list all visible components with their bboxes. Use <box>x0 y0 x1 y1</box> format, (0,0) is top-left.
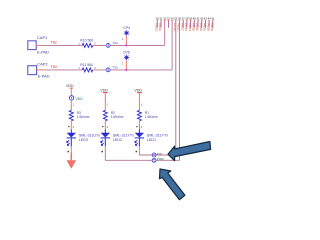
svg-text:PA19: PA19 <box>192 23 196 31</box>
capacitor CP6 <box>122 50 130 65</box>
connector pin 10 <box>189 16 193 27</box>
wire TS3 to port <box>97 69 173 71</box>
svg-text:E-PAD: E-PAD <box>37 50 49 55</box>
connector pin 5 <box>170 16 174 21</box>
svg-text:PB16: PB16 <box>210 23 214 31</box>
capacitor CP4 <box>122 26 130 41</box>
wire TS2 net: CAP1 pin <box>36 44 41 46</box>
svg-text:P00: P00 <box>157 152 162 156</box>
svg-text:CAP1: CAP1 <box>37 35 48 40</box>
LED D LED3 <box>67 133 101 146</box>
connector pin 7 <box>178 16 182 21</box>
connector pin 4 <box>167 16 171 27</box>
power symbol VDD (branch R1) <box>134 89 142 111</box>
wire TS2 net horizontal left <box>41 44 79 46</box>
svg-text:PA17: PA17 <box>180 23 184 31</box>
wire TS2 vertical to connector pin 3 <box>164 21 166 46</box>
annotation arrow A (pointing left at ports) <box>168 142 211 161</box>
power symbol VDD (branch R3) <box>66 84 83 101</box>
svg-text:TS2: TS2 <box>112 41 118 45</box>
wire R3 to LED3 <box>70 121 72 130</box>
svg-text:R10 560: R10 560 <box>80 39 93 43</box>
wire CP6 pin to net <box>125 60 127 70</box>
connector pin 8 <box>182 16 186 27</box>
port TS3 circle <box>106 65 118 72</box>
svg-text:PC18: PC18 <box>206 23 210 31</box>
svg-text:LED3: LED3 <box>79 138 88 142</box>
svg-text:LED2: LED2 <box>113 138 122 142</box>
wire VDD to R3 <box>70 100 72 110</box>
resistor R10 pin 1 <box>79 44 82 46</box>
svg-text:CP6: CP6 <box>123 50 130 54</box>
off-page arrow down (branch R3) <box>67 153 77 169</box>
wire TS3 vertical to connector pin 5 <box>171 21 173 70</box>
wire TS3 net: CAP2 pin <box>37 69 41 71</box>
wire connector pin 6 down <box>175 21 177 155</box>
svg-text:CAP2: CAP2 <box>37 62 48 67</box>
svg-text:PC12: PC12 <box>184 23 188 31</box>
connector pin 13 <box>200 16 204 27</box>
svg-text:SML-311YTx: SML-311YTx <box>147 133 168 137</box>
LED D LED1 <box>135 133 168 146</box>
connector pin 3 <box>163 16 167 21</box>
svg-text:TS3: TS3 <box>51 65 57 69</box>
svg-text:PC11: PC11 <box>195 23 199 31</box>
svg-text:1.6Kohm: 1.6Kohm <box>145 115 158 119</box>
resistor R1 <box>136 103 158 129</box>
connector pin 16 <box>211 16 215 27</box>
connector pin 14 <box>204 16 208 27</box>
svg-text:PB12: PB12 <box>155 23 159 31</box>
svg-text:1.6Kohm: 1.6Kohm <box>111 115 124 119</box>
resistor R10 <box>78 39 96 48</box>
svg-text:PB14: PB14 <box>199 23 203 31</box>
off-page port circle 1 <box>152 152 162 157</box>
svg-text:P1B0: P1B0 <box>157 157 164 161</box>
junction on TS3 net <box>125 69 127 71</box>
svg-text:PC15: PC15 <box>173 23 177 31</box>
svg-text:CP4: CP4 <box>123 26 130 30</box>
wire connector pin 7 down <box>179 21 181 161</box>
capacitor pad CAP2 <box>28 62 50 79</box>
connector pin 6 <box>174 16 178 21</box>
LED D LED2 <box>101 133 134 146</box>
wire R1 to LED1 <box>138 121 140 130</box>
wire R2 to LED2 <box>104 121 106 130</box>
svg-text:SML-311UTx: SML-311UTx <box>79 133 101 137</box>
connector pin 1 <box>156 16 160 27</box>
junction on TS2 net <box>125 44 127 46</box>
connector pin 15 <box>207 16 211 27</box>
wire LED1 down to port <box>138 138 140 146</box>
svg-text:PB14: PB14 <box>188 23 192 31</box>
resistor R3 <box>68 103 90 129</box>
port TS2 circle <box>106 41 118 48</box>
wire LED3 down <box>70 138 72 146</box>
wire TS2 to port <box>97 44 165 46</box>
resistor R11 <box>78 63 96 72</box>
svg-text:TS2: TS2 <box>51 41 57 45</box>
svg-text:LED1: LED1 <box>147 138 156 142</box>
resistor R11 pin 2 <box>93 69 97 71</box>
svg-text:PA13: PA13 <box>203 23 207 31</box>
annotation arrow B (pointing up-left at ports) <box>160 169 185 200</box>
svg-text:PA13: PA13 <box>158 23 162 31</box>
resistor R10 pin 2 <box>93 44 97 46</box>
svg-text:PB11: PB11 <box>177 23 181 31</box>
connector pin 2 <box>159 16 163 27</box>
svg-text:VDD: VDD <box>76 97 84 101</box>
wire TS3 net horizontal left <box>41 69 79 71</box>
connector pin 9 <box>185 16 189 27</box>
svg-text:E-PAD: E-PAD <box>38 74 50 79</box>
wire CP4 pin to net <box>125 36 127 46</box>
power symbol VDD (branch R2) <box>100 89 108 111</box>
svg-text:1.6Kohm: 1.6Kohm <box>77 115 90 119</box>
off-page port circle 2 <box>152 157 164 162</box>
connector pin 12 <box>196 16 200 27</box>
svg-text:R11 560: R11 560 <box>80 63 93 67</box>
resistor R2 <box>102 103 124 129</box>
wire LED2 down to port <box>104 138 106 146</box>
resistor R11 pin 1 <box>79 69 82 71</box>
capacitor pad CAP1 <box>28 35 49 55</box>
svg-text:TS3: TS3 <box>112 65 118 69</box>
connector pin 11 <box>193 16 197 27</box>
svg-text:SML-311YTx: SML-311YTx <box>113 133 134 137</box>
